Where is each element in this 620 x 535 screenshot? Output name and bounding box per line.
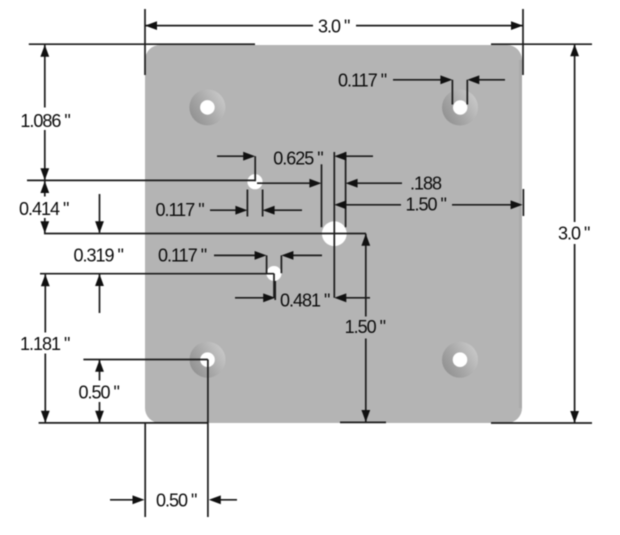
hole2 0.117 left tail [214,254,255,256]
center hole left edge extension [321,164,323,227]
arrowhead 0.625 right-pointing [243,152,255,161]
.188 right arrow tail [357,182,402,184]
0.319 upper arrow stem [99,194,101,233]
1.50 horizontal left tail [346,204,401,206]
0.50 left stem upper [99,360,101,381]
arrowhead 1.181 down [41,411,50,423]
arrowhead hole2 0.117 right-pointing [255,251,267,260]
1.50 horizontal extension tick at plate edge [522,189,524,216]
.188 left arrow tail [257,182,310,184]
0.481 extension hole2 bottom [274,281,276,300]
arrowhead bottom 0.50 left-pointing [209,495,221,504]
extension line plate bottom under 1.50 arrow [340,421,386,423]
arrowhead 0.481 right-pointing [263,293,275,302]
0.625 left tail [217,155,244,157]
hole bottom-left [200,352,215,367]
leader bottom hole vertical [207,360,209,518]
small hole 2 [267,266,282,281]
hole1 0.117 extension right [262,190,264,217]
arrowhead 0.50 left down [95,411,104,423]
0.481 left tail [235,297,264,299]
center horizontal line [44,233,366,235]
arrowhead .188 left-pointing [346,179,358,188]
svg-text:0.117 ": 0.117 " [158,246,207,266]
hole1 0.117 right tail [274,209,302,211]
bottom 0.50 dim right tail [220,499,237,501]
arrowhead hole2 0.117 left-pointing [281,251,293,260]
top 0.117 extension left [451,80,453,105]
hole top-right [453,100,467,114]
1.086 stem lower [44,130,46,180]
hole top-left [200,100,215,115]
svg-text:0.50 ": 0.50 " [156,490,197,510]
0.625 leader vertical to hole1 [254,156,256,181]
top dim line right segment [356,25,523,27]
svg-text:0.414 ": 0.414 " [19,199,69,219]
svg-text:0.481 ": 0.481 " [280,291,330,311]
arrowhead 0.319 down [95,221,104,233]
arrowhead 1.50 vertical down [361,410,370,422]
arrowhead right dim up [570,44,579,56]
svg-text:1.50 ": 1.50 " [345,317,386,337]
hole2 0.117 right tail [293,254,322,256]
1.181 stem upper [44,275,46,333]
top 0.117 right tail [479,79,505,81]
1.50 horizontal right segment [452,204,511,206]
hole2 leader vertical to 0.481 [273,274,275,298]
svg-text:3.0 ": 3.0 " [558,223,590,243]
countersink ring top-right [442,90,478,126]
0.414 stem lower [44,218,46,233]
top dim extension line right [522,9,524,75]
1.181 stem lower [44,354,46,423]
extension line plate top left [29,43,255,45]
bottom 0.50 dim left tail [110,499,133,501]
top 0.117 left tail [393,79,441,81]
hole1 0.117 left tail [210,209,236,211]
0.50 left stem lower [99,402,101,423]
hole bottom-right [453,352,468,367]
arrowhead top dim left [145,21,157,30]
svg-text:0.625 ": 0.625 " [273,149,323,169]
extension plate left edge vertical [144,423,146,517]
hole1 0.117 extension left [246,190,248,217]
plate [145,45,522,423]
center hole right edge extension [345,152,347,227]
extension line bottom hole center [83,359,207,361]
arrowhead hole1 0.117 right-pointing [235,206,247,215]
1.086 stem upper [44,45,46,108]
arrowhead right dim down [570,411,579,423]
arrowhead 1.181 up [41,274,50,286]
arrowhead 1.50 vertical up [361,234,370,246]
arrowhead 0.50 left up [95,360,104,372]
arrowhead 0.625 left-pointing [334,152,346,161]
svg-text:1.50 ": 1.50 " [406,195,447,215]
0.481 right tail [346,297,370,299]
arrowhead 1.086 down [40,168,49,180]
extension line plate bottom left [39,422,208,424]
small hole 1 [247,174,262,189]
svg-text:0.117 ": 0.117 " [156,200,205,220]
svg-text:0.117 ": 0.117 " [338,70,387,90]
arrowhead 1.086 up [40,45,49,57]
arrowhead 0.319 up [95,274,104,286]
svg-text:0.50 ": 0.50 " [79,382,120,402]
arrowhead hole1 0.117 left-pointing [263,206,275,215]
svg-text:3.0 ": 3.0 " [318,16,350,36]
right dim line lower [574,244,576,423]
top 0.117 extension right [466,80,468,105]
0.414 stem upper [44,181,46,197]
countersink ring bottom-left [190,342,226,378]
1.50 vertical stem upper [365,234,367,317]
hole2 0.117 extension left [266,255,268,273]
right dim line upper [574,44,576,222]
arrowhead 1.50 horizontal right-pointing [511,200,523,209]
countersink ring bottom-right [442,342,478,378]
countersink ring top-left [189,89,225,125]
0.625 right tail [346,155,373,157]
1.50 vertical stem lower [365,339,367,422]
arrowhead bottom 0.50 right-pointing [133,495,145,504]
right dim extension bottom [491,422,592,424]
0.319 lower arrow stem [99,275,101,314]
arrowhead 0.481 left-pointing [334,293,346,302]
plate right edge shade [519,60,522,408]
svg-text:.188: .188 [410,174,442,194]
right dim extension top [491,43,592,45]
extension line hole2 center [40,273,274,275]
arrowhead 1.50 horizontal left-pointing [334,200,346,209]
arrowhead 0.414 down [40,221,49,233]
svg-text:1.181 ": 1.181 " [20,334,70,354]
extension line hole1 center [27,179,256,181]
top dim line left segment [145,25,313,27]
top dim extension line left [144,9,146,75]
arrowhead 0.414 up [40,181,49,193]
svg-text:0.319 ": 0.319 " [74,246,124,266]
arrowhead top 0.117 left-pointing [467,75,479,84]
arrowhead top dim right [511,21,523,30]
center hole [322,221,347,246]
svg-text:1.086 ": 1.086 " [20,111,70,131]
center hole vertical centerline [333,152,335,298]
arrowhead top 0.117 right-pointing [440,75,452,84]
arrowhead .188 right-pointing [309,179,321,188]
hole2 0.117 extension right [280,255,282,273]
